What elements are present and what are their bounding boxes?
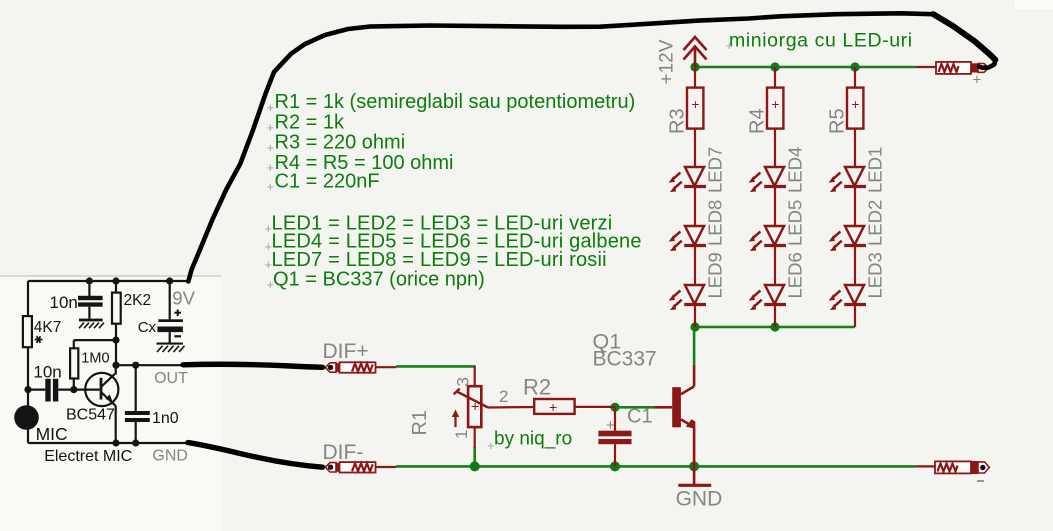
svg-text:GND: GND: [676, 488, 723, 511]
svg-text:+: +: [267, 277, 275, 292]
svg-text:+: +: [265, 221, 273, 236]
svg-text:+: +: [267, 160, 275, 175]
svg-text:+: +: [267, 179, 275, 194]
svg-text:+: +: [852, 97, 860, 112]
svg-text:C1: C1: [627, 406, 653, 428]
svg-text:LED1: LED1: [865, 147, 886, 193]
svg-text:+: +: [487, 438, 495, 453]
svg-text:+: +: [973, 72, 982, 89]
svg-text:9V: 9V: [172, 288, 195, 309]
svg-text:1M0: 1M0: [81, 351, 109, 367]
svg-text:R2: R2: [523, 375, 551, 400]
svg-text:BC547: BC547: [66, 407, 115, 424]
svg-text:R3 = 220 ohmi: R3 = 220 ohmi: [275, 131, 406, 153]
svg-text:+: +: [267, 140, 275, 155]
svg-text:LED9: LED9: [705, 252, 726, 298]
svg-text:+: +: [726, 38, 734, 53]
svg-text:+12V: +12V: [657, 39, 678, 84]
svg-text:1n0: 1n0: [152, 410, 179, 427]
svg-text:+: +: [549, 399, 557, 415]
svg-text:by niq_ro: by niq_ro: [494, 429, 572, 450]
svg-text:3: 3: [454, 377, 473, 386]
svg-text:Cx: Cx: [138, 319, 157, 336]
svg-text:R1 = 1k (semireglabil sau pote: R1 = 1k (semireglabil sau potentiometru): [275, 91, 636, 113]
svg-text:+: +: [692, 97, 700, 112]
svg-text:R4: R4: [747, 108, 769, 134]
svg-text:+: +: [606, 417, 615, 434]
svg-text:2K2: 2K2: [124, 292, 152, 309]
svg-text:MIC: MIC: [36, 424, 68, 444]
svg-text:R2 = 1k: R2 = 1k: [275, 111, 345, 133]
svg-text:R5: R5: [827, 108, 849, 134]
svg-text:+: +: [471, 398, 479, 414]
svg-text:2: 2: [499, 387, 508, 406]
svg-text:Q1 = BC337 (orice npn): Q1 = BC337 (orice npn): [273, 269, 485, 291]
svg-text:GND: GND: [152, 448, 188, 465]
svg-text:LED5: LED5: [785, 200, 806, 246]
svg-text:+: +: [265, 239, 273, 254]
svg-text:10n: 10n: [50, 293, 78, 312]
svg-text:R1: R1: [409, 410, 431, 436]
svg-text:LED4: LED4: [785, 147, 806, 193]
svg-text:R3: R3: [667, 108, 689, 134]
svg-text:C1 = 220nF: C1 = 220nF: [275, 171, 380, 193]
svg-text:+: +: [267, 120, 275, 135]
svg-text:Electret MIC: Electret MIC: [44, 448, 132, 465]
svg-text:+: +: [772, 97, 780, 112]
svg-text:BC337: BC337: [593, 348, 657, 371]
svg-text:miniorga cu LED-uri: miniorga cu LED-uri: [729, 29, 913, 51]
svg-text:LED2: LED2: [865, 200, 886, 246]
svg-text:LED6: LED6: [785, 252, 806, 298]
svg-text:DIF-: DIF-: [323, 441, 364, 464]
svg-text:LED8: LED8: [705, 200, 726, 246]
svg-text:LED7: LED7: [705, 147, 726, 193]
svg-text:10n: 10n: [33, 363, 61, 382]
svg-text:DIF+: DIF+: [323, 340, 369, 363]
svg-text:OUT: OUT: [154, 370, 188, 387]
svg-text:+: +: [265, 257, 273, 272]
svg-text:1: 1: [452, 430, 471, 439]
svg-text:+: +: [267, 100, 275, 115]
svg-text:4K7: 4K7: [34, 319, 62, 336]
svg-text:LED3: LED3: [865, 252, 886, 298]
